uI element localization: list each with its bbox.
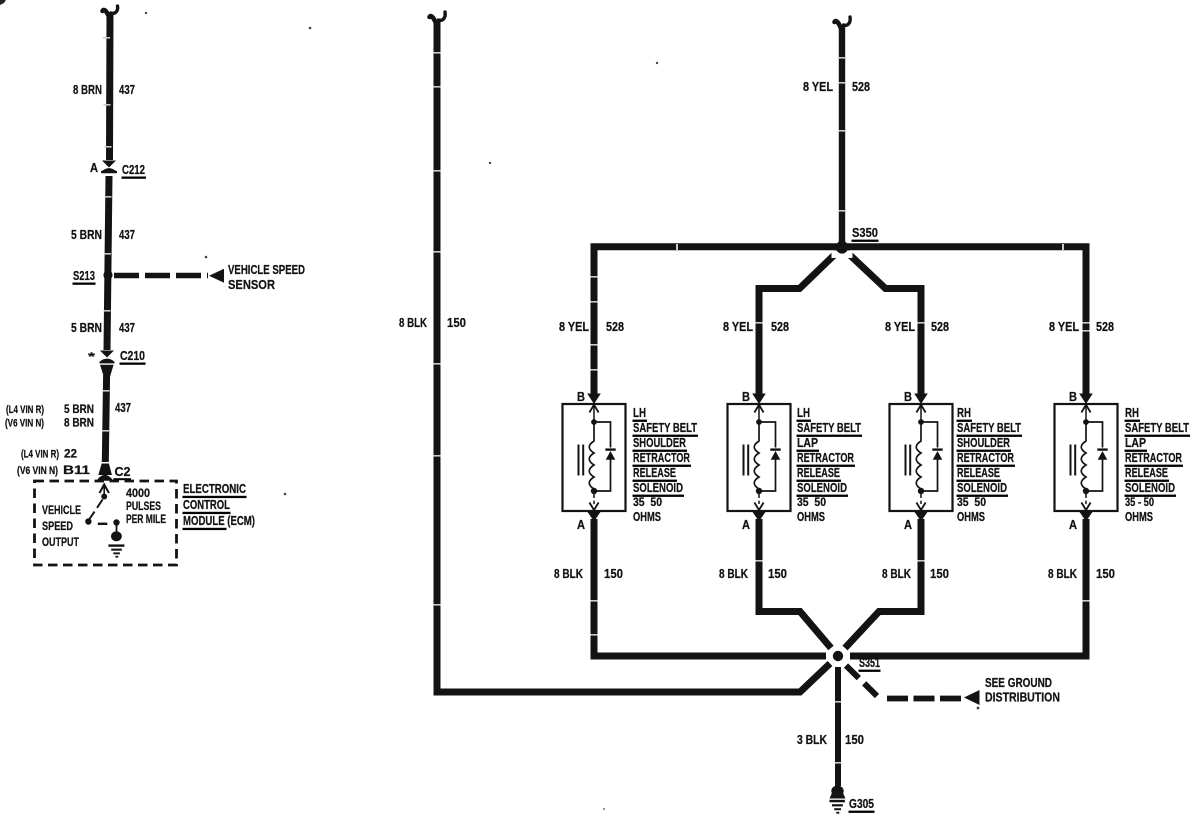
diode branch wire (rh-lap)	[1086, 422, 1103, 491]
svg-text:SOLENOID: SOLENOID	[957, 480, 1007, 495]
svg-text:5 BRN: 5 BRN	[71, 227, 102, 242]
svg-text:8 YEL: 8 YEL	[723, 319, 753, 334]
dashed wire from S351 to ground distribution	[846, 666, 880, 700]
node: coil top junction (rh-lap)	[1083, 419, 1089, 425]
wire: RH shoulder branch down, jog left, diagonal to S351	[845, 519, 921, 648]
svg-text:SEE GROUND: SEE GROUND	[985, 675, 1052, 690]
svg-text:35 50: 35 50	[797, 495, 826, 509]
svg-text:SPEED: SPEED	[42, 519, 73, 533]
wire break hook (top of left wire)	[103, 6, 118, 18]
svg-text:528: 528	[1096, 319, 1114, 334]
node: switch pivot dot	[101, 494, 107, 500]
core lines (lh-shoulder)	[579, 445, 584, 476]
svg-text:B: B	[1069, 389, 1077, 404]
svg-text:RELEASE: RELEASE	[797, 465, 840, 480]
dashed lead to pin A (lh-shoulder)	[593, 494, 595, 504]
wire: BRN 437 vertical run (left, top segment)	[105, 12, 110, 462]
svg-text:B: B	[904, 389, 912, 404]
svg-text:150: 150	[930, 566, 949, 581]
svg-text:SAFETY BELT: SAFETY BELT	[957, 420, 1021, 435]
svg-text:A: A	[90, 160, 99, 175]
core lines (lh-lap)	[744, 445, 749, 476]
svg-text:SAFETY BELT: SAFETY BELT	[797, 420, 861, 435]
dashed wire to vehicle speed sensor	[114, 273, 208, 279]
connector arrow out of pin A (lh-shoulder)	[587, 512, 601, 522]
female terminal arrow inside top (lh-shoulder)	[589, 405, 598, 420]
core lines (rh-shoulder)	[906, 445, 911, 476]
wire: 8 BLK 150 long run from top to S351	[437, 20, 830, 692]
svg-text:OHMS: OHMS	[1125, 509, 1153, 524]
svg-text:437: 437	[119, 82, 135, 97]
svg-text:8 BLK: 8 BLK	[554, 566, 583, 581]
connector C212 (male arrow + female cup)	[101, 161, 117, 174]
arrow (male pin up) inside ECM at C2	[100, 485, 109, 495]
svg-text:8 BLK: 8 BLK	[719, 566, 748, 581]
svg-text:(V6 VIN N): (V6 VIN N)	[17, 465, 58, 477]
female terminal arrow inside top (rh-shoulder)	[916, 405, 925, 420]
svg-text:LAP: LAP	[1125, 435, 1146, 450]
svg-text:C212: C212	[122, 162, 145, 177]
svg-text:VEHICLE SPEED: VEHICLE SPEED	[228, 262, 305, 277]
svg-text:8 BRN: 8 BRN	[64, 416, 94, 430]
svg-text:C210: C210	[120, 348, 145, 363]
svg-text:PER MILE: PER MILE	[126, 512, 166, 526]
svg-text:150: 150	[1096, 566, 1115, 581]
dashed lead to pin A (rh-lap)	[1085, 494, 1087, 504]
wire: LH shoulder branch down to S351 (left horizontal)	[594, 519, 826, 656]
svg-text:SENSOR: SENSOR	[228, 277, 276, 292]
svg-text:CONTROL: CONTROL	[183, 497, 230, 512]
svg-text:437: 437	[119, 320, 135, 335]
svg-text:3 BLK: 3 BLK	[797, 732, 827, 747]
svg-text:S351: S351	[859, 655, 880, 670]
diode branch wire (lh-shoulder)	[594, 422, 611, 491]
svg-text:LAP: LAP	[797, 435, 818, 450]
svg-text:SOLENOID: SOLENOID	[797, 480, 847, 495]
svg-text:5 BRN: 5 BRN	[64, 402, 94, 416]
svg-text:LH: LH	[633, 405, 646, 420]
svg-text:A: A	[577, 517, 586, 532]
label stack for lh-lap solenoid	[797, 405, 863, 524]
solenoid coil (rh-lap)	[1081, 424, 1086, 491]
connector arrow out of pin A (lh-lap)	[752, 512, 766, 522]
connector C210 (male arrow + female cup)	[100, 351, 115, 377]
svg-text:A: A	[1069, 517, 1078, 532]
svg-text:A: A	[742, 517, 751, 532]
svg-text:RETRACTOR: RETRACTOR	[1125, 450, 1182, 465]
bus wire with corners down to outer branches	[594, 247, 1086, 398]
svg-text:22: 22	[64, 447, 77, 461]
svg-text:RH: RH	[957, 405, 971, 420]
node: coil bottom junction (rh-shoulder)	[918, 488, 924, 494]
svg-text:OUTPUT: OUTPUT	[42, 535, 79, 549]
arrowhead (see ground distribution)	[964, 690, 980, 705]
solenoid box lh-shoulder	[563, 404, 626, 511]
node: switch contact dot (left)	[85, 518, 91, 524]
svg-text:*: *	[88, 351, 96, 363]
connector arrow into pin B (lh-shoulder)	[587, 394, 601, 405]
node: coil top junction (rh-shoulder)	[918, 419, 924, 425]
wire: diagonal from S350 to RH shoulder branch	[843, 249, 921, 399]
svg-text:35 50: 35 50	[633, 495, 662, 509]
connector arrow out of pin A (rh-shoulder)	[914, 512, 928, 522]
label stack for lh-shoulder solenoid	[633, 405, 699, 524]
svg-text:8 YEL: 8 YEL	[559, 319, 589, 334]
ground symbol (ECM internal)	[108, 531, 124, 557]
connector arrow into pin B (rh-shoulder)	[914, 394, 928, 405]
scan gap artifacts on wires	[102, 37, 1090, 764]
solenoid coil (lh-shoulder)	[589, 424, 594, 491]
node: coil top junction (lh-lap)	[756, 419, 762, 425]
terminal arrow inside bottom (rh-lap)	[1081, 503, 1090, 511]
svg-text:437: 437	[119, 227, 135, 242]
wire to internal ground	[116, 525, 118, 532]
diode branch wire (lh-lap)	[759, 422, 776, 491]
switch arm (dashed)	[90, 500, 103, 520]
connector arrow out of pin A (rh-lap)	[1079, 512, 1093, 522]
svg-text:OHMS: OHMS	[957, 509, 985, 524]
wire: diagonal from S350 to LH lap branch	[759, 249, 841, 399]
diode branch wire (rh-shoulder)	[921, 422, 938, 491]
wire break hook (top of 8 BLK wire)	[430, 12, 446, 26]
svg-text:8 BRN: 8 BRN	[73, 82, 102, 97]
svg-text:RELEASE: RELEASE	[957, 465, 1000, 480]
solenoid coil (rh-shoulder)	[916, 424, 921, 491]
wire: 3 BLK 150 from S351 to G305	[835, 667, 841, 786]
svg-text:C2: C2	[115, 464, 131, 479]
node: coil bottom junction (lh-shoulder)	[591, 488, 597, 494]
ECM dashed box	[35, 481, 177, 565]
svg-text:S213: S213	[73, 268, 95, 283]
svg-text:B: B	[742, 389, 750, 404]
svg-text:LH: LH	[797, 405, 810, 420]
svg-text:PULSES: PULSES	[126, 499, 161, 513]
svg-text:SHOULDER: SHOULDER	[957, 435, 1010, 450]
solenoid box lh-lap	[728, 404, 791, 511]
svg-text:SAFETY BELT: SAFETY BELT	[1125, 420, 1189, 435]
svg-text:G305: G305	[849, 796, 874, 811]
splice S350	[836, 241, 848, 253]
svg-text:RETRACTOR: RETRACTOR	[633, 450, 690, 465]
svg-text:528: 528	[606, 319, 624, 334]
wire break hook (top of 8 YEL wire)	[835, 17, 851, 31]
svg-text:RETRACTOR: RETRACTOR	[957, 450, 1014, 465]
svg-text:RELEASE: RELEASE	[1125, 465, 1168, 480]
svg-text:35 ‑ 50: 35 ‑ 50	[1125, 495, 1154, 509]
node: coil bottom junction (rh-lap)	[1083, 488, 1089, 494]
svg-text:RH: RH	[1125, 405, 1139, 420]
svg-text:(V6 VIN N): (V6 VIN N)	[5, 418, 44, 430]
svg-text:ELECTRONIC: ELECTRONIC	[183, 481, 246, 496]
terminal arrow inside bottom (lh-lap)	[754, 503, 763, 511]
connector C2 (wire flare + female cup at ECM boundary)	[98, 464, 113, 481]
svg-text:RELEASE: RELEASE	[633, 465, 676, 480]
svg-text:B11: B11	[63, 463, 90, 477]
svg-text:VEHICLE: VEHICLE	[42, 503, 81, 517]
terminal arrow inside bottom (lh-shoulder)	[589, 503, 598, 511]
svg-text:SAFETY BELT: SAFETY BELT	[633, 420, 697, 435]
svg-text:150: 150	[845, 732, 864, 747]
solenoid box rh-shoulder	[890, 404, 953, 511]
diode (rh-shoulder)	[932, 448, 942, 459]
svg-text:B: B	[577, 389, 585, 404]
diode (lh-shoulder)	[605, 448, 615, 459]
label stack for rh-shoulder solenoid	[957, 405, 1023, 524]
label stack for rh-lap solenoid	[1125, 405, 1191, 524]
splice S350 white notch and dot	[832, 250, 853, 258]
svg-text:150: 150	[447, 315, 466, 330]
svg-text:8 YEL: 8 YEL	[885, 319, 915, 334]
diode (lh-lap)	[770, 448, 780, 459]
svg-text:437: 437	[115, 400, 131, 415]
wire: RH lap branch down to S351 (right horizontal)	[850, 519, 1086, 656]
svg-text:35 50: 35 50	[957, 495, 986, 509]
svg-text:150: 150	[768, 566, 787, 581]
svg-text:(L4 VIN R): (L4 VIN R)	[6, 404, 44, 416]
svg-text:150: 150	[604, 566, 623, 581]
svg-text:8 YEL: 8 YEL	[803, 79, 833, 94]
svg-text:SOLENOID: SOLENOID	[1125, 480, 1175, 495]
wire: 8 YEL 528 feed from top	[839, 26, 845, 243]
svg-text:528: 528	[771, 319, 789, 334]
female terminal arrow inside top (lh-lap)	[754, 405, 763, 420]
node: coil top junction (lh-shoulder)	[591, 419, 597, 425]
svg-text:SHOULDER: SHOULDER	[633, 435, 686, 450]
svg-text:S350: S350	[852, 225, 878, 240]
solenoid coil (lh-lap)	[754, 424, 759, 491]
connector arrow into pin B (rh-lap)	[1079, 394, 1093, 405]
dashed link to ground contact	[98, 523, 108, 525]
dashed lead to pin A (lh-lap)	[758, 494, 760, 504]
svg-text:MODULE (ECM): MODULE (ECM)	[183, 513, 255, 528]
terminal arrow inside bottom (rh-shoulder)	[916, 503, 925, 511]
arrowhead (to vehicle speed sensor)	[209, 269, 224, 283]
svg-text:RETRACTOR: RETRACTOR	[797, 450, 854, 465]
svg-text:528: 528	[931, 319, 949, 334]
core lines (rh-lap)	[1071, 445, 1076, 476]
svg-text:4000: 4000	[126, 486, 150, 500]
svg-text:DISTRIBUTION: DISTRIBUTION	[985, 690, 1060, 705]
svg-text:8 BLK: 8 BLK	[882, 566, 911, 581]
female terminal arrow inside top (rh-lap)	[1081, 405, 1090, 420]
svg-text:8 BLK: 8 BLK	[399, 315, 427, 330]
diode (rh-lap)	[1097, 448, 1107, 459]
node: ground contact dot	[113, 519, 119, 525]
svg-text:8 YEL: 8 YEL	[1049, 319, 1079, 334]
dashed lead to pin A (rh-shoulder)	[920, 494, 922, 504]
svg-text:SOLENOID: SOLENOID	[633, 480, 683, 495]
svg-text:OHMS: OHMS	[633, 509, 661, 524]
svg-text:528: 528	[852, 79, 870, 94]
svg-text:OHMS: OHMS	[797, 509, 825, 524]
splice S351 (ringed junction)	[828, 646, 849, 667]
splice S213	[103, 270, 112, 279]
ground G305 symbol	[830, 786, 846, 814]
svg-text:A: A	[904, 517, 913, 532]
svg-text:5 BRN: 5 BRN	[71, 320, 102, 335]
connector arrow into pin B (lh-lap)	[752, 394, 766, 405]
wire: LH lap branch down, jog right, diagonal to S351	[759, 519, 831, 648]
solenoid box rh-lap	[1055, 404, 1118, 511]
node: coil bottom junction (lh-lap)	[756, 488, 762, 494]
svg-text:8 BLK: 8 BLK	[1048, 566, 1077, 581]
svg-text:(L4 VIN R): (L4 VIN R)	[21, 449, 59, 461]
